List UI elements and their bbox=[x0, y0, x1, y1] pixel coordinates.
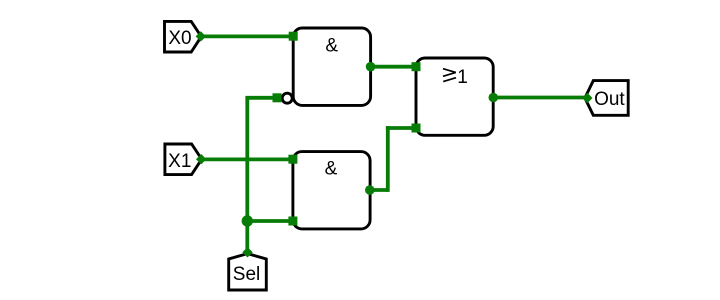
or-gate U3 label greater-equal bar bbox=[443, 78, 456, 82]
pin U2.B square bbox=[288, 217, 297, 226]
pin U1.Y output dot bbox=[366, 62, 376, 72]
wire U2 output horizontal segment bbox=[370, 188, 388, 192]
svg-text:Sel: Sel bbox=[233, 264, 260, 285]
input label X1 bbox=[165, 144, 202, 175]
wire U3 output to Out label bbox=[493, 96, 587, 100]
wire X1 to U2 pin A bbox=[201, 157, 293, 161]
node Out connection diamond bbox=[582, 93, 592, 103]
input label Sel bbox=[229, 254, 267, 290]
wire U2 output vertical segment bbox=[386, 126, 390, 192]
junction Sel net bbox=[242, 215, 253, 226]
and-gate U2 body bbox=[293, 152, 370, 229]
pin U2.A square bbox=[288, 155, 297, 164]
pin U2.Y output dot bbox=[365, 185, 375, 195]
svg-text:X0: X0 bbox=[168, 28, 191, 49]
svg-text:Out: Out bbox=[594, 89, 625, 110]
or-gate U3 label greater-equal stroke 1 bbox=[443, 69, 456, 73]
wire Sel vertical from junction up to U1 inverted pin branch bbox=[245, 98, 249, 221]
svg-text:&: & bbox=[325, 158, 338, 179]
wire Sel branch to U1 inverted pin B bbox=[245, 96, 277, 100]
and-gate U1 body bbox=[293, 28, 370, 105]
node X0 connection diamond bbox=[196, 31, 206, 41]
pin U1.B square (inverted input) bbox=[273, 93, 282, 102]
output label Out bbox=[585, 81, 628, 116]
or-gate U3 body bbox=[416, 58, 493, 135]
node X1 connection diamond bbox=[196, 154, 206, 164]
or-gate U3 label greater-equal stroke 2 bbox=[443, 72, 456, 76]
input label X0 bbox=[165, 21, 202, 52]
wire X0 to U1 pin A bbox=[201, 35, 293, 39]
wire U1 output to U3 pin A bbox=[371, 65, 416, 69]
pin U3.B square bbox=[412, 124, 421, 133]
wire to U3 pin B bbox=[386, 126, 416, 130]
and-gate U1 inverted input bubble bbox=[282, 93, 292, 103]
wire junction to U2 pin B bbox=[247, 219, 293, 223]
wire Sel vertical from label to junction bbox=[245, 221, 249, 252]
pin U1.A square bbox=[289, 32, 298, 41]
svg-text:X1: X1 bbox=[168, 151, 191, 172]
pin U3.A square bbox=[412, 62, 421, 71]
node Sel connection diamond bbox=[242, 247, 252, 257]
svg-text:1: 1 bbox=[457, 67, 468, 88]
svg-text:&: & bbox=[325, 35, 338, 56]
pin U3.Y output dot bbox=[489, 93, 499, 103]
